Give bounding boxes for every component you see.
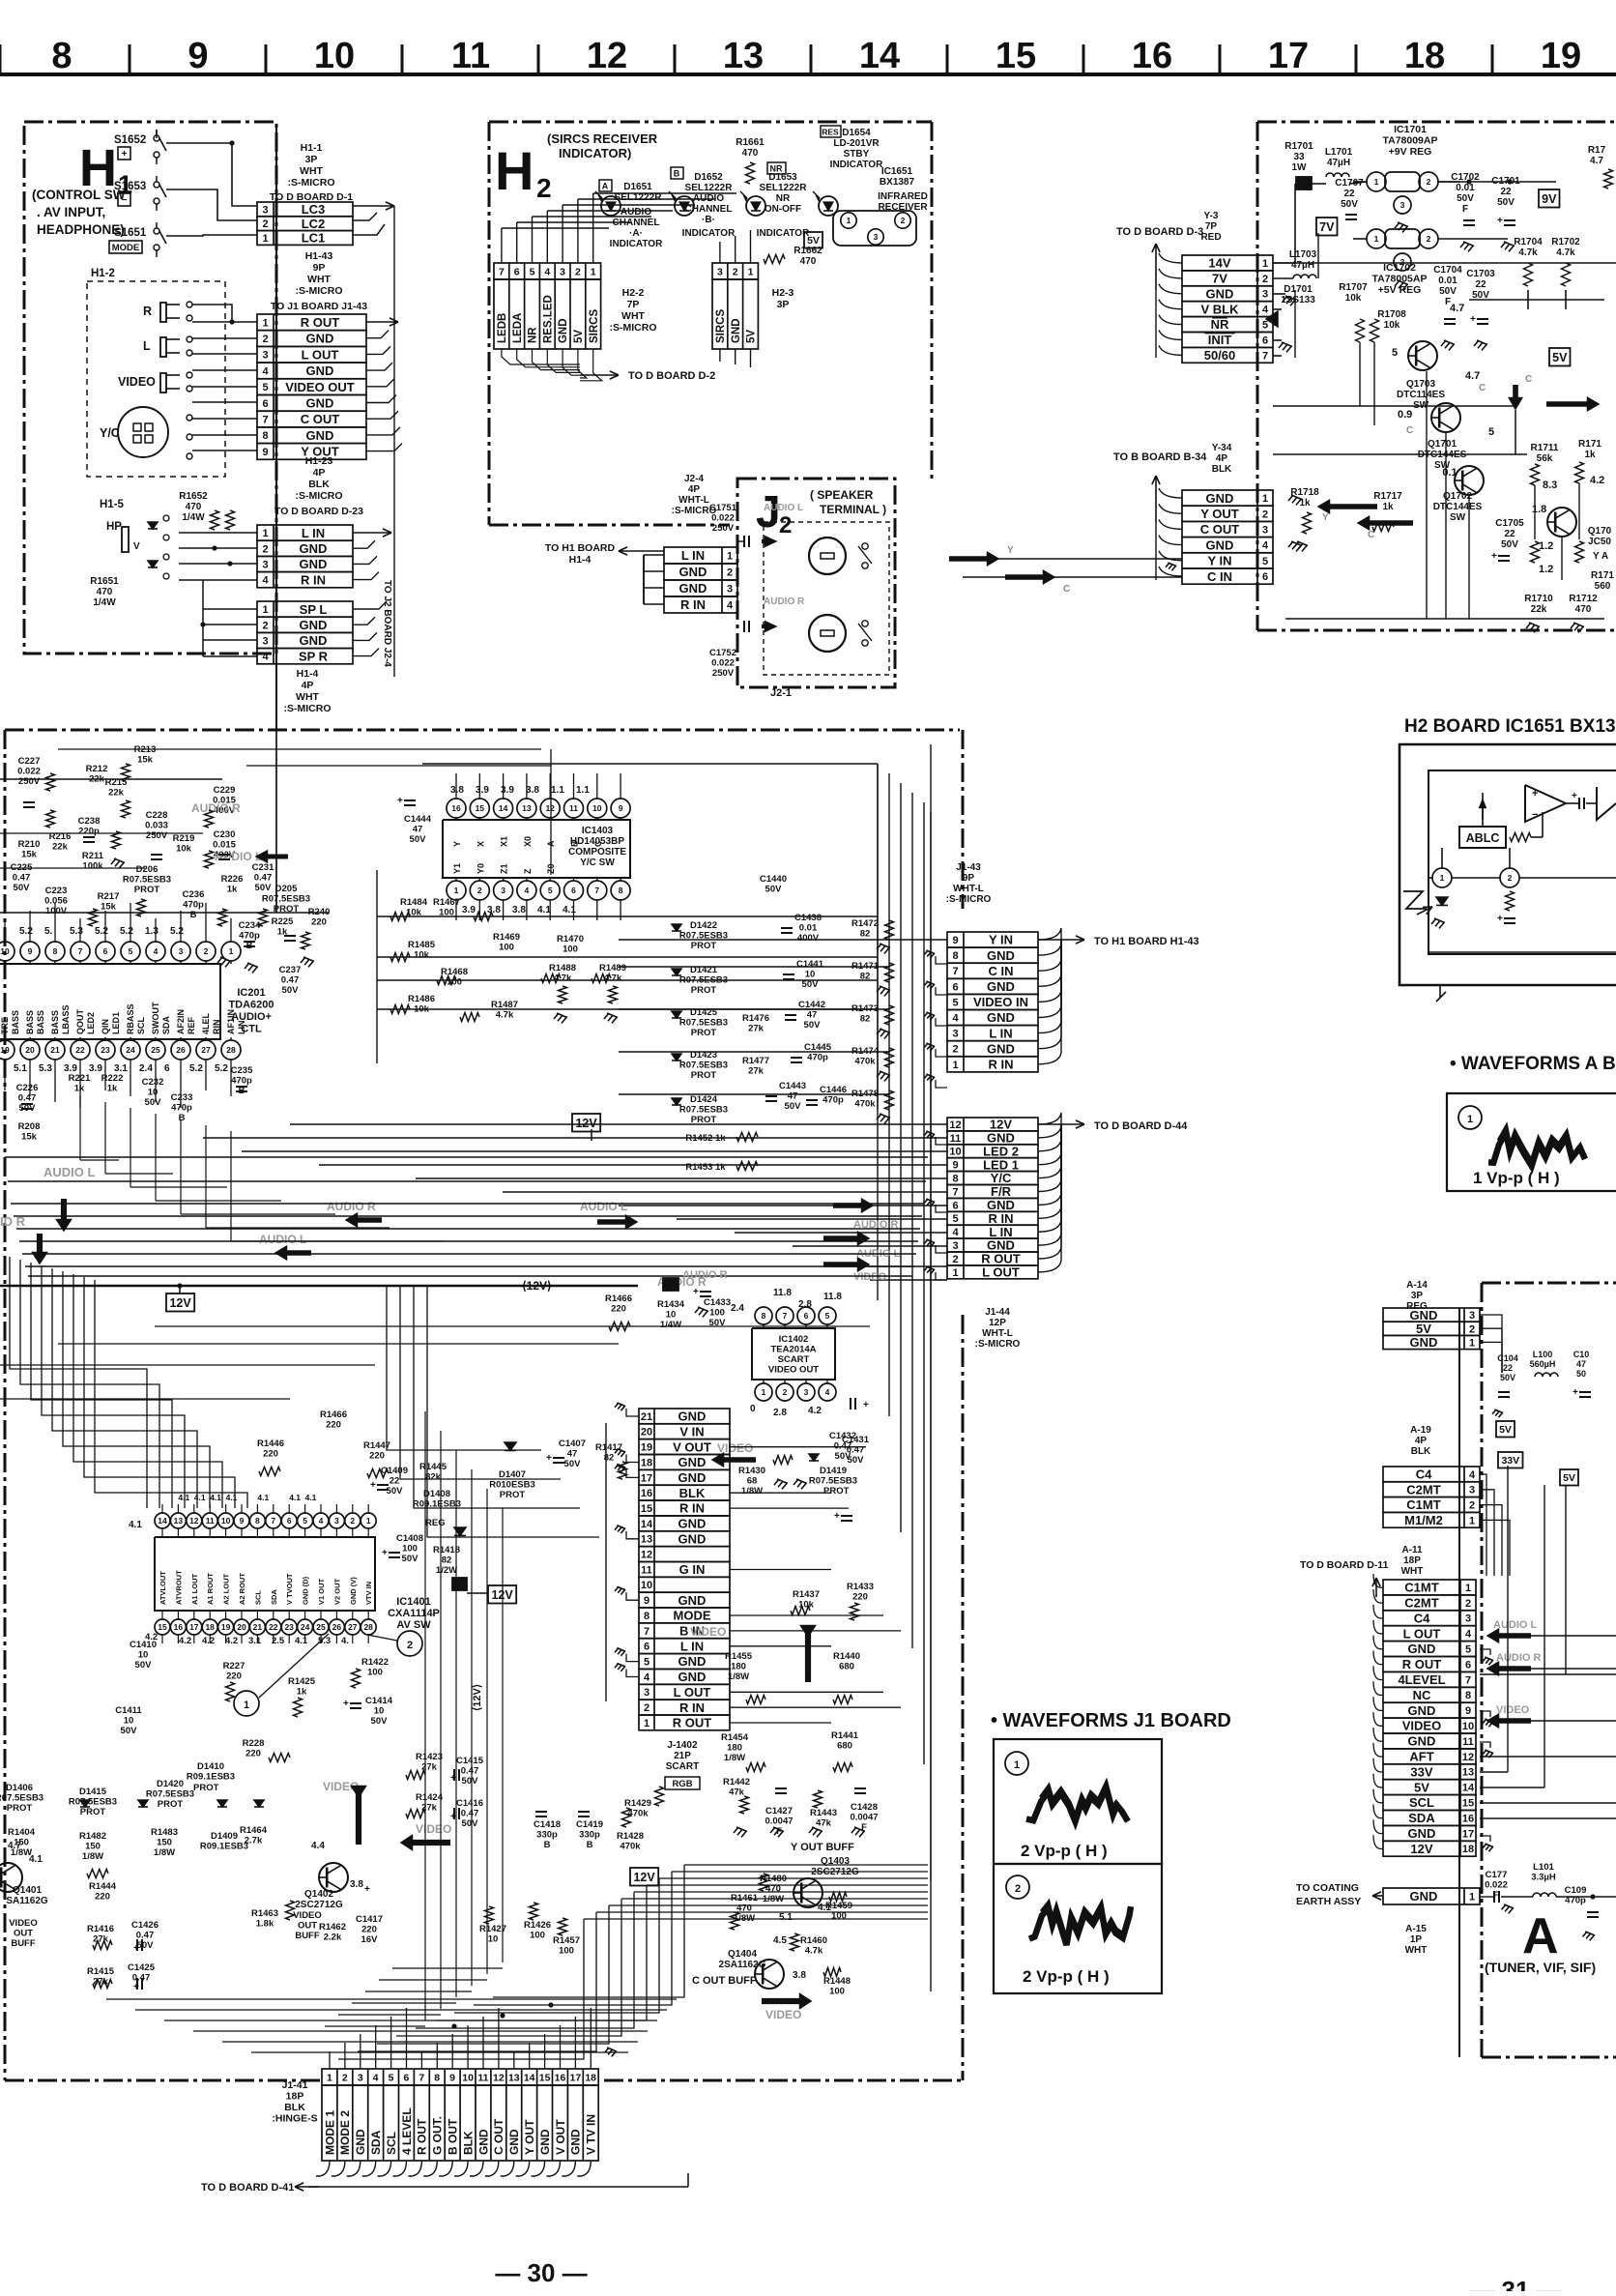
svg-text:C1409: C1409	[381, 1466, 408, 1476]
svg-text:0.47: 0.47	[461, 1766, 479, 1777]
svg-text:47: 47	[788, 1091, 798, 1102]
svg-text:7V: 7V	[1212, 272, 1227, 286]
svg-text:RES.LED: RES.LED	[542, 295, 554, 343]
svg-text:10: 10	[138, 1650, 149, 1661]
svg-text:1: 1	[748, 266, 754, 277]
svg-text:C: C	[1479, 383, 1486, 393]
svg-text:C230: C230	[214, 829, 236, 840]
svg-text:WHT-L: WHT-L	[982, 1328, 1013, 1339]
svg-text:1: 1	[1440, 873, 1445, 883]
svg-text:2: 2	[1465, 1598, 1471, 1610]
svg-text:AUDIO R: AUDIO R	[1496, 1652, 1542, 1664]
svg-text:0.022: 0.022	[711, 658, 735, 669]
svg-text:220: 220	[361, 1925, 377, 1935]
svg-text:7: 7	[271, 1516, 275, 1526]
svg-text:14: 14	[641, 1519, 653, 1530]
svg-text:RGB: RGB	[672, 1779, 692, 1789]
svg-text:Q1701: Q1701	[1428, 439, 1457, 450]
svg-text:AUDIO L: AUDIO L	[764, 503, 803, 513]
svg-text:3: 3	[262, 204, 268, 216]
svg-text:R09.1ESB3: R09.1ESB3	[413, 1499, 461, 1510]
svg-text:R IN: R IN	[679, 1700, 705, 1715]
svg-text:R228: R228	[243, 1738, 265, 1749]
svg-text:11: 11	[206, 1516, 215, 1526]
svg-text:INDICATOR: INDICATOR	[610, 239, 663, 249]
svg-text:25: 25	[316, 1622, 326, 1632]
svg-text:50V: 50V	[462, 1776, 479, 1787]
svg-text:C227: C227	[18, 756, 41, 767]
svg-text:R1457: R1457	[553, 1935, 580, 1946]
svg-text:2.7k: 2.7k	[245, 1836, 263, 1846]
svg-text:GND: GND	[1408, 1826, 1436, 1841]
svg-text:50V: 50V	[255, 883, 273, 893]
svg-text:C1MT: C1MT	[1406, 1497, 1440, 1512]
svg-text:15: 15	[641, 1503, 652, 1515]
svg-text:12: 12	[949, 1119, 961, 1131]
svg-text:R07.5ESB3: R07.5ESB3	[262, 894, 310, 905]
svg-text:STBY: STBY	[844, 149, 870, 160]
svg-text:NC: NC	[1413, 1688, 1431, 1702]
svg-text:6: 6	[1262, 571, 1268, 583]
svg-text:1.1: 1.1	[551, 785, 564, 796]
svg-text:11: 11	[1462, 1736, 1474, 1748]
svg-text:WHT: WHT	[1405, 1945, 1428, 1956]
svg-text:D1653: D1653	[768, 172, 797, 183]
svg-text:2SC2712G: 2SC2712G	[295, 1900, 343, 1910]
svg-text:R1477: R1477	[742, 1056, 769, 1066]
svg-text:1: 1	[262, 604, 268, 616]
svg-text:5: 5	[1488, 426, 1494, 438]
svg-text:C1752: C1752	[709, 648, 736, 658]
svg-text:470: 470	[1575, 604, 1592, 615]
svg-text:0.47: 0.47	[13, 873, 31, 884]
svg-text:18P: 18P	[286, 2091, 304, 2103]
svg-text:H1-5: H1-5	[100, 499, 125, 510]
svg-text:12V: 12V	[990, 1118, 1012, 1132]
svg-text:21: 21	[50, 1045, 60, 1055]
svg-text:GND: GND	[507, 2129, 521, 2155]
svg-text:QOUT: QOUT	[75, 1008, 85, 1034]
svg-text:50V: 50V	[848, 1455, 865, 1466]
svg-text:R1466: R1466	[605, 1293, 632, 1304]
svg-text:3: 3	[727, 584, 733, 596]
svg-text:C232: C232	[142, 1077, 164, 1088]
svg-text:3.3µH: 3.3µH	[1531, 1873, 1556, 1883]
svg-text:27k: 27k	[748, 1024, 765, 1034]
svg-text:NR: NR	[1211, 317, 1229, 332]
svg-text:13: 13	[1462, 1767, 1474, 1779]
svg-text:4.7: 4.7	[8, 1841, 21, 1851]
svg-text:V IN: V IN	[679, 1425, 704, 1439]
svg-text:5: 5	[825, 1311, 830, 1321]
svg-text:50V: 50V	[402, 1554, 419, 1564]
svg-text:R07.5ESB3: R07.5ESB3	[809, 1476, 857, 1487]
svg-text:S1653: S1653	[114, 181, 146, 192]
svg-text:Q170: Q170	[1588, 526, 1612, 537]
svg-text:C1416: C1416	[456, 1798, 483, 1809]
svg-text:GND: GND	[1408, 1703, 1436, 1718]
svg-text:3: 3	[952, 1240, 958, 1252]
svg-text:R1662: R1662	[794, 246, 822, 256]
svg-text:23: 23	[101, 1045, 110, 1055]
svg-text:+5V REG: +5V REG	[1378, 284, 1422, 296]
svg-text:2: 2	[204, 946, 209, 956]
svg-text:R OUT: R OUT	[416, 2118, 429, 2155]
svg-text:7: 7	[952, 966, 958, 977]
svg-text:A-14: A-14	[1406, 1280, 1428, 1291]
svg-text:1: 1	[1262, 258, 1268, 270]
svg-text:10k: 10k	[1345, 293, 1362, 304]
svg-text:F/R: F/R	[991, 1184, 1012, 1199]
svg-text:C238: C238	[78, 816, 101, 827]
svg-text:1W: 1W	[1292, 162, 1308, 173]
svg-text:4.1: 4.1	[537, 905, 551, 915]
svg-text:5.: 5.	[44, 926, 53, 937]
svg-text:220: 220	[311, 917, 327, 928]
svg-text:4.2: 4.2	[202, 1636, 215, 1646]
svg-text:VIDEO: VIDEO	[1402, 1719, 1441, 1733]
svg-text:A: A	[602, 182, 609, 191]
svg-text:0.47: 0.47	[281, 975, 300, 986]
svg-text:18: 18	[1462, 1844, 1474, 1855]
svg-text:0.47: 0.47	[136, 1931, 155, 1941]
svg-text:SDA: SDA	[369, 2130, 383, 2155]
svg-text:R09.1ESB3: R09.1ESB3	[187, 1772, 235, 1783]
svg-text:50V: 50V	[387, 1486, 404, 1497]
svg-text:1: 1	[1465, 1583, 1471, 1594]
svg-text:15k: 15k	[137, 755, 154, 766]
svg-text:IC1701: IC1701	[1394, 124, 1427, 135]
svg-text:0.47: 0.47	[18, 1093, 37, 1104]
svg-text:R1448: R1448	[823, 1976, 851, 1987]
svg-text:9: 9	[644, 1595, 649, 1607]
svg-text:1: 1	[644, 1718, 649, 1729]
svg-text:H1-2: H1-2	[91, 268, 115, 279]
svg-text:Z0: Z0	[546, 863, 556, 874]
svg-text:H2-2: H2-2	[622, 287, 645, 299]
svg-text:BLK: BLK	[1411, 1446, 1431, 1457]
svg-text:470k: 470k	[854, 1099, 876, 1110]
svg-text:4.1: 4.1	[563, 905, 576, 915]
svg-text:560: 560	[1595, 581, 1611, 592]
svg-text:5V: 5V	[1563, 1472, 1575, 1484]
svg-text:R1447: R1447	[363, 1440, 390, 1451]
svg-text:C OUT: C OUT	[301, 412, 340, 426]
svg-text:GND: GND	[678, 1654, 707, 1669]
svg-text:470p: 470p	[822, 1095, 844, 1106]
svg-text:250V: 250V	[712, 523, 735, 534]
svg-text:CTL: CTL	[241, 1024, 262, 1035]
svg-text:15: 15	[539, 2072, 551, 2083]
svg-text:OUT: OUT	[298, 1921, 317, 1932]
svg-text:C228: C228	[146, 810, 168, 821]
svg-text:C234: C234	[239, 920, 261, 931]
svg-text:R07.5ESB3: R07.5ESB3	[679, 1105, 728, 1116]
svg-text:R1417: R1417	[595, 1442, 622, 1453]
svg-text:C177: C177	[1486, 1870, 1508, 1880]
svg-text:6: 6	[287, 1516, 292, 1526]
svg-text:2: 2	[952, 1254, 958, 1265]
svg-text:0.056: 0.056	[44, 896, 68, 907]
svg-text:A: A	[1522, 1908, 1559, 1964]
svg-text:PROT: PROT	[691, 1070, 717, 1081]
svg-text:INDICATOR: INDICATOR	[682, 228, 736, 239]
svg-text:PROT: PROT	[80, 1807, 106, 1817]
svg-text:IC1702: IC1702	[1383, 262, 1416, 274]
svg-text:82: 82	[860, 972, 871, 982]
svg-text:AUDIO R: AUDIO R	[682, 1269, 728, 1281]
svg-text:+: +	[693, 1287, 699, 1297]
svg-text:50V: 50V	[1500, 1373, 1515, 1382]
svg-text:LC2: LC2	[302, 217, 326, 231]
svg-text:R1486: R1486	[408, 994, 435, 1004]
svg-text:7: 7	[418, 2072, 424, 2083]
svg-text:C1703: C1703	[1466, 269, 1495, 279]
svg-text:R1445: R1445	[419, 1462, 447, 1472]
svg-text:R1443: R1443	[810, 1808, 837, 1818]
svg-text:2 Vp-p ( H ): 2 Vp-p ( H )	[1021, 1842, 1108, 1860]
svg-text:GND: GND	[476, 2129, 490, 2155]
svg-text:C1705: C1705	[1495, 518, 1524, 529]
svg-text:17: 17	[641, 1472, 652, 1484]
svg-text:50V: 50V	[137, 1940, 155, 1951]
svg-text:19: 19	[0, 1045, 10, 1055]
svg-text:22: 22	[390, 1476, 400, 1487]
svg-text:R1440: R1440	[833, 1651, 860, 1662]
svg-text:2: 2	[262, 218, 268, 230]
svg-text:180: 180	[731, 1662, 746, 1672]
svg-text:1.3: 1.3	[145, 926, 159, 937]
svg-text:2: 2	[262, 334, 268, 345]
svg-text:50V: 50V	[462, 1818, 479, 1829]
svg-text:4.7k: 4.7k	[1556, 247, 1575, 258]
svg-text:Y/C SW: Y/C SW	[580, 857, 615, 868]
svg-text:4P: 4P	[313, 467, 326, 479]
svg-text:100: 100	[530, 1931, 545, 1941]
svg-text:4.1: 4.1	[194, 1493, 206, 1502]
svg-text:470: 470	[97, 587, 113, 597]
svg-text:AUDIO R: AUDIO R	[764, 596, 805, 607]
svg-text:AUDIO R: AUDIO R	[327, 1200, 376, 1213]
svg-text:C1438: C1438	[794, 913, 822, 923]
svg-text:11: 11	[569, 803, 578, 813]
svg-text:H2-3: H2-3	[772, 287, 794, 299]
svg-text:B: B	[179, 1113, 186, 1123]
svg-text:J1-41: J1-41	[282, 2079, 308, 2091]
svg-text:8: 8	[434, 2072, 440, 2083]
svg-text:BLK: BLK	[461, 2131, 475, 2155]
svg-text:G OUT.: G OUT.	[431, 2116, 445, 2155]
svg-text:3: 3	[874, 232, 879, 242]
svg-text:VIDEO: VIDEO	[1496, 1704, 1530, 1716]
svg-text:8: 8	[1465, 1690, 1471, 1701]
svg-text:2: 2	[407, 1640, 413, 1651]
svg-text:G IN: G IN	[679, 1562, 706, 1577]
svg-text:5: 5	[644, 1657, 649, 1669]
svg-text:C1428: C1428	[851, 1802, 878, 1813]
svg-text:0.022: 0.022	[711, 513, 735, 524]
svg-text:R1428: R1428	[617, 1831, 644, 1842]
svg-text:R1425: R1425	[288, 1676, 316, 1687]
svg-text:0.47: 0.47	[254, 873, 273, 884]
svg-text:R211: R211	[82, 851, 104, 861]
svg-text:H1-4: H1-4	[569, 554, 592, 566]
svg-text:3: 3	[952, 1029, 958, 1040]
svg-text:10: 10	[462, 2072, 474, 2083]
svg-text:R1416: R1416	[87, 1924, 114, 1934]
svg-text:LEDB: LEDB	[497, 313, 508, 343]
svg-text:RES: RES	[822, 128, 839, 137]
svg-text:+: +	[122, 149, 128, 160]
svg-text:5: 5	[952, 1213, 958, 1225]
svg-text:R219: R219	[173, 833, 195, 844]
svg-text:·A·: ·A·	[629, 228, 643, 239]
svg-text:GND: GND	[987, 1010, 1015, 1025]
svg-text:56k: 56k	[1537, 453, 1553, 464]
svg-text:+: +	[382, 1548, 388, 1558]
svg-text:3: 3	[358, 2072, 363, 2083]
svg-text:22k: 22k	[52, 842, 69, 853]
svg-text:4: 4	[952, 1227, 959, 1238]
svg-text:470: 470	[742, 148, 759, 159]
svg-text:4P: 4P	[688, 484, 701, 495]
svg-text:14: 14	[859, 36, 900, 76]
svg-text:R IN: R IN	[301, 572, 326, 587]
svg-text:4: 4	[1262, 305, 1269, 316]
svg-text:50V: 50V	[785, 1101, 802, 1112]
svg-text:50V: 50V	[1501, 539, 1518, 550]
svg-text:GND: GND	[306, 428, 334, 443]
svg-text:Q1401: Q1401	[13, 1885, 42, 1896]
svg-text:SA1162G: SA1162G	[6, 1896, 48, 1906]
svg-text:BLK: BLK	[308, 479, 330, 490]
svg-text:SIRCS: SIRCS	[589, 309, 600, 343]
svg-text:680: 680	[837, 1741, 852, 1752]
svg-text:33: 33	[1293, 152, 1305, 162]
svg-text:4.: 4.	[341, 1636, 349, 1646]
svg-text:VIDEO: VIDEO	[118, 375, 156, 389]
svg-text:D1415: D1415	[79, 1787, 107, 1797]
svg-text:DTC144ES: DTC144ES	[1433, 502, 1483, 512]
svg-text:9: 9	[449, 2072, 455, 2083]
svg-text:Q1703: Q1703	[1406, 379, 1435, 390]
svg-text:7: 7	[1262, 350, 1268, 362]
svg-text:220: 220	[369, 1451, 385, 1462]
svg-text:C1443: C1443	[779, 1081, 806, 1091]
svg-text:5: 5	[1392, 347, 1398, 359]
svg-text:150: 150	[85, 1842, 101, 1852]
svg-text:QIN: QIN	[101, 1019, 110, 1034]
svg-text:0.022: 0.022	[1485, 1880, 1508, 1891]
svg-text:82: 82	[860, 1014, 871, 1025]
svg-text:J2-4: J2-4	[684, 474, 704, 484]
svg-text:4LEL: 4LEL	[201, 1012, 211, 1034]
svg-text:VIDEO OUT: VIDEO OUT	[285, 380, 355, 394]
svg-text:TO D BOARD D-44: TO D BOARD D-44	[1094, 1120, 1188, 1132]
svg-text:470: 470	[186, 502, 202, 512]
svg-text:1/8W: 1/8W	[82, 1851, 103, 1862]
svg-text:TO D BOARD D-2: TO D BOARD D-2	[628, 370, 715, 382]
svg-text:10: 10	[124, 1716, 134, 1727]
svg-text:R1467: R1467	[433, 897, 460, 908]
svg-text:GND: GND	[1206, 286, 1234, 301]
svg-text:1: 1	[952, 1060, 958, 1071]
svg-text:GND: GND	[558, 318, 569, 343]
svg-text:GND (V): GND (V)	[349, 1577, 358, 1605]
svg-text:Y OUT BUFF: Y OUT BUFF	[791, 1842, 854, 1853]
svg-text:10k: 10k	[1384, 320, 1400, 331]
svg-text:GND: GND	[987, 1238, 1015, 1253]
svg-text:12: 12	[1462, 1752, 1474, 1763]
svg-text:R1702: R1702	[1551, 237, 1580, 247]
svg-text:9V: 9V	[1542, 192, 1557, 206]
svg-text:+: +	[133, 1943, 139, 1954]
svg-text:3: 3	[1262, 289, 1268, 301]
svg-text:R07.5ESB3: R07.5ESB3	[679, 1061, 728, 1071]
svg-text:R1701: R1701	[1284, 141, 1313, 152]
svg-text:3: 3	[644, 1687, 649, 1699]
svg-text:SW: SW	[1450, 512, 1466, 523]
svg-text:WHT: WHT	[300, 165, 323, 177]
svg-text:82: 82	[860, 929, 871, 940]
svg-text:L: L	[143, 339, 151, 353]
svg-text:4.7: 4.7	[1590, 156, 1603, 166]
svg-text:14V: 14V	[1208, 256, 1230, 271]
svg-text:8.3: 8.3	[1543, 480, 1557, 491]
svg-text:21P: 21P	[674, 1751, 691, 1761]
svg-text:S1651: S1651	[114, 227, 147, 239]
svg-text:11.8: 11.8	[823, 1292, 842, 1302]
svg-text:2: 2	[1427, 177, 1431, 187]
svg-text:1 Vp-p ( H ): 1 Vp-p ( H )	[1473, 1169, 1560, 1187]
svg-text:15k: 15k	[101, 902, 117, 913]
svg-text:22: 22	[1500, 187, 1512, 197]
svg-text:5.2: 5.2	[120, 926, 133, 937]
svg-text:9: 9	[1465, 1705, 1471, 1717]
svg-text:C IN: C IN	[1207, 569, 1232, 584]
svg-text:10: 10	[592, 803, 602, 813]
svg-text:GND: GND	[1408, 1734, 1436, 1749]
svg-text:10: 10	[148, 1088, 159, 1098]
svg-text:IC1403: IC1403	[582, 826, 614, 836]
svg-text:5.3: 5.3	[70, 926, 83, 937]
svg-text:8: 8	[619, 886, 623, 895]
svg-text:9: 9	[240, 1516, 245, 1526]
svg-text:D205: D205	[275, 884, 298, 894]
svg-text:47k: 47k	[729, 1787, 745, 1798]
svg-text:R07.5ESB3: R07.5ESB3	[679, 975, 728, 986]
svg-text:+: +	[370, 1480, 376, 1491]
svg-text:TRE: TRE	[0, 1017, 10, 1034]
svg-text:3.8: 3.8	[350, 1879, 363, 1890]
svg-text:14: 14	[499, 803, 508, 813]
svg-text:560µH: 560µH	[1530, 1359, 1556, 1369]
svg-text:3: 3	[560, 266, 565, 277]
svg-text:2: 2	[342, 2072, 348, 2083]
svg-text:17: 17	[1268, 36, 1309, 76]
svg-text:R1460: R1460	[800, 1935, 827, 1946]
svg-text:PROT: PROT	[158, 1799, 184, 1810]
svg-text:R OUT: R OUT	[301, 315, 340, 330]
svg-text:D1422: D1422	[690, 920, 717, 931]
svg-text:+: +	[1573, 1387, 1578, 1398]
svg-text:TA78009AP: TA78009AP	[1382, 135, 1437, 147]
svg-text:V2 OUT: V2 OUT	[332, 1578, 341, 1605]
svg-text:+: +	[364, 1884, 370, 1895]
svg-text:B OUT: B OUT	[447, 2118, 460, 2155]
svg-text:GND: GND	[987, 1041, 1015, 1056]
svg-text:11: 11	[477, 2072, 488, 2083]
